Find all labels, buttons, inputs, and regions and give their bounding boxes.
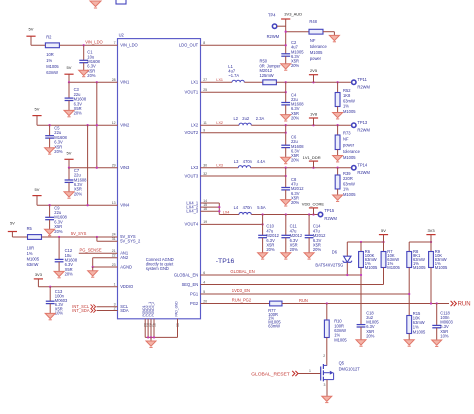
ground C2 gnd — [281, 56, 291, 70]
wire VOUT2 pin — [201, 132, 286, 134]
svg-text:10R: 10R — [46, 52, 54, 57]
svg-text:6: 6 — [203, 271, 205, 275]
wire C10 stub — [262, 215, 264, 236]
junction pgnd1 — [147, 336, 149, 338]
ground PGND gnd — [146, 337, 156, 347]
C2 labels — [291, 40, 304, 68]
svg-text:25: 25 — [203, 88, 207, 92]
svg-text:2: 2 — [323, 354, 325, 358]
junction 1V1/R39 — [336, 167, 338, 169]
capacitor C2 — [281, 54, 290, 56]
svg-text:3V3: 3V3 — [427, 228, 435, 233]
junction core/C14 — [308, 213, 310, 215]
svg-text:M1005: M1005 — [387, 265, 400, 270]
net label VDD_CORE — [302, 202, 325, 207]
resistor R39 — [335, 175, 340, 189]
testpoint TP14 — [352, 166, 356, 170]
svg-text:1%: 1% — [343, 187, 349, 192]
svg-text:VOUT1: VOUT1 — [185, 90, 199, 95]
resistor R52 — [335, 93, 340, 107]
svg-text:20%: 20% — [366, 333, 375, 338]
C8 labels — [291, 177, 304, 205]
wire R48 right — [323, 31, 334, 33]
svg-text:M1005: M1005 — [343, 192, 356, 197]
resistor R8 — [407, 252, 412, 268]
junction 3V3 tee — [430, 241, 432, 243]
wire C118 stub — [436, 304, 438, 326]
svg-text:9: 9 — [203, 129, 205, 133]
net label Q5 pin1 — [309, 369, 311, 373]
wire C14 stub — [308, 215, 310, 236]
svg-text:20%: 20% — [65, 272, 74, 277]
svg-text:28: 28 — [112, 78, 116, 82]
wire 5V rail horiz — [347, 241, 383, 243]
C14 labels — [313, 224, 326, 253]
capacitor C118 — [432, 325, 441, 327]
junction VIN4/C9 — [48, 204, 50, 206]
wire L3 to rail — [251, 167, 351, 169]
wire Q5 source — [326, 380, 328, 397]
testpoint TP4 — [272, 24, 276, 28]
svg-text:INT_SDA: INT_SDA — [72, 308, 90, 313]
svg-text:R5: R5 — [27, 226, 33, 231]
ground R52 gnd — [333, 107, 343, 119]
svg-text:M1005: M1005 — [413, 265, 426, 270]
testpoint TP13 — [352, 123, 356, 127]
svg-text:1%: 1% — [46, 58, 52, 63]
svg-text:LX3: LX3 — [216, 163, 223, 167]
power 5V (VIN1) — [64, 65, 73, 74]
svg-text:U2: U2 — [119, 33, 125, 38]
wire LX4 to L4 — [219, 214, 239, 216]
net label TP16 note — [216, 258, 235, 265]
svg-text:30: 30 — [203, 164, 207, 168]
inductor L4 — [239, 212, 251, 214]
wire 5V to VIN1 row — [68, 74, 70, 82]
C10 labels — [266, 224, 279, 253]
wire PGND gather — [145, 336, 177, 338]
junction VIN_LDO/C1 — [83, 44, 85, 46]
R15 labels — [413, 311, 426, 334]
junction core/bar — [312, 213, 314, 215]
resistor R10 — [324, 320, 329, 338]
junction R10/RUN — [326, 302, 328, 304]
svg-text:LX3: LX3 — [191, 165, 199, 170]
junction LX4 join1 — [218, 206, 220, 208]
C13 labels — [55, 289, 68, 316]
IC U2 PMIC — [118, 33, 201, 319]
power 5V (pullups) — [379, 228, 388, 234]
wire R10 top stub — [326, 304, 328, 321]
net label VIN_LDO — [85, 39, 103, 44]
wire 2V5 bar stem — [313, 75, 315, 83]
wire L2 to rail — [251, 124, 351, 126]
wire R9 top stub — [430, 242, 432, 252]
ground R73 gnd — [333, 150, 343, 162]
svg-text:R2: R2 — [46, 35, 52, 40]
wire 5V to VIN3 row — [68, 159, 70, 167]
wire PG1 row — [201, 293, 410, 295]
wire R8 top stub — [408, 242, 410, 252]
svg-text:VOUT3: VOUT3 — [185, 173, 199, 178]
svg-text:20%: 20% — [74, 191, 83, 196]
junction 1V8/C6 — [285, 124, 287, 126]
wire R39 top stub — [337, 168, 339, 175]
junction 2V5/bar — [312, 81, 314, 83]
capacitor C6 — [281, 145, 290, 147]
svg-text:M1005: M1005 — [46, 64, 59, 69]
wire R9 bottom — [430, 268, 432, 304]
wire 5V to VIN2 row — [36, 116, 38, 126]
wire C12 stub — [58, 237, 60, 259]
svg-text:470n: 470n — [243, 205, 253, 210]
svg-text:power: power — [310, 56, 322, 61]
svg-text:VIN1: VIN1 — [120, 80, 130, 85]
svg-text:L2: L2 — [234, 116, 239, 121]
svg-text:~1.7A: ~1.7A — [228, 73, 239, 78]
svg-text:20%: 20% — [291, 200, 300, 205]
resistor R5 — [28, 235, 42, 240]
ground Q5 gnd — [322, 396, 332, 402]
junction C118/RUN — [436, 302, 438, 304]
power 5V (VIN4) — [32, 187, 41, 196]
wire TP4 to net — [277, 25, 286, 27]
junction 2V5/C4 — [285, 81, 287, 83]
power 2V5 — [309, 68, 318, 75]
svg-text:NF: NF — [310, 38, 316, 43]
junction VIN1/chain — [96, 81, 98, 83]
svg-text:R2WM: R2WM — [357, 128, 370, 133]
testpoint TP11 — [352, 80, 356, 84]
power 5V (VIN2) — [32, 106, 41, 115]
U2 bottom pin names PGND PAD_GND — [142, 301, 178, 317]
svg-text:GLOBAL_EN: GLOBAL_EN — [174, 272, 198, 277]
inductor L3 — [238, 166, 250, 168]
capacitor C9 — [45, 217, 54, 219]
svg-text:20%: 20% — [291, 158, 300, 163]
resistor R73 — [335, 135, 340, 150]
svg-text:R2WM: R2WM — [267, 34, 280, 39]
svg-text:2u2: 2u2 — [242, 116, 250, 121]
net label Q5 pin3 — [324, 383, 326, 387]
port chevron RUN port — [451, 301, 457, 306]
svg-text:PG2: PG2 — [190, 301, 199, 306]
wire VIN1-VIN3 chain — [96, 82, 98, 167]
wire C13 stub — [49, 287, 51, 301]
ground C12 gnd — [54, 262, 64, 278]
wire VIN_LDO row — [31, 44, 118, 46]
svg-text:BAT54XV2T5G: BAT54XV2T5G — [315, 262, 343, 267]
TP13 labels — [357, 120, 370, 132]
svg-text:M1005: M1005 — [365, 265, 378, 270]
ground C6 gnd — [281, 148, 291, 164]
svg-text:1V1_DDR: 1V1_DDR — [303, 155, 321, 160]
svg-text:VDDIO: VDDIO — [120, 284, 133, 289]
wire C5 stub — [49, 125, 51, 136]
junction R6/GLOBAL_EN — [360, 274, 362, 276]
svg-text:LX1: LX1 — [216, 78, 223, 82]
net label INT_SCL — [72, 304, 90, 309]
junction pgnd3 — [153, 336, 155, 338]
wire VIN2-VIN4 chain — [87, 125, 89, 205]
svg-text:5V: 5V — [10, 220, 15, 225]
svg-text:19: 19 — [203, 220, 207, 224]
wire L4 to rail — [251, 214, 318, 216]
R8 labels — [413, 249, 426, 270]
wire 5V_SYS_2 drop — [96, 237, 98, 241]
svg-text:LX2: LX2 — [191, 123, 199, 128]
svg-text:PG1: PG1 — [190, 291, 199, 296]
port chevron INT_SDA — [91, 308, 96, 312]
net label GLOBAL_EN — [230, 269, 254, 274]
svg-text:2.3A: 2.3A — [256, 116, 265, 121]
svg-text:TP11: TP11 — [357, 77, 367, 82]
testpoint TP15 — [318, 212, 322, 216]
junction R8/PG1 — [408, 293, 410, 295]
wire LX2 pin — [201, 124, 240, 126]
junction pgnd2 — [150, 336, 152, 338]
wire LX4 pin stubs — [201, 203, 220, 215]
ground C3 gnd — [64, 101, 74, 117]
R77 labels — [268, 308, 281, 329]
wire 5V stem — [383, 235, 385, 242]
junction 1V1/bar — [312, 167, 314, 169]
junction VIN2/chain — [96, 124, 98, 126]
svg-text:1V8: 1V8 — [310, 112, 318, 117]
svg-text:7: 7 — [114, 41, 116, 45]
wire SDA — [97, 310, 118, 312]
svg-text:M1005: M1005 — [343, 155, 356, 160]
svg-text:11: 11 — [203, 121, 207, 125]
capacitor C3 — [65, 98, 74, 100]
resistor R50 — [263, 80, 277, 85]
svg-text:20%: 20% — [291, 63, 300, 68]
svg-text:L4: L4 — [234, 205, 239, 210]
inductor L1 — [232, 80, 244, 82]
net label 1V1_DDR — [303, 155, 321, 160]
svg-text:5V_SYS_2: 5V_SYS_2 — [120, 239, 141, 244]
wire 3V3 rail horiz — [409, 241, 431, 243]
svg-text:20%: 20% — [290, 247, 299, 252]
resistor R2 — [45, 43, 59, 48]
resistor R9 — [429, 252, 434, 268]
svg-text:21: 21 — [112, 249, 116, 253]
svg-text:1VD3_EN: 1VD3_EN — [232, 288, 250, 293]
junction R48 tap — [285, 31, 287, 33]
svg-text:63mW: 63mW — [27, 262, 39, 267]
R10 labels — [334, 319, 347, 343]
svg-text:VOUT2: VOUT2 — [185, 130, 199, 135]
wire 5V to VIN4 row — [36, 196, 38, 206]
svg-text:12: 12 — [112, 121, 116, 125]
ground R48 gnd — [329, 32, 339, 42]
svg-text:R48: R48 — [309, 19, 317, 24]
capacitor C1 — [79, 60, 88, 62]
junction AN2/AGND — [92, 266, 94, 268]
svg-text:R73: R73 — [343, 131, 351, 136]
svg-text:63mW: 63mW — [343, 98, 355, 103]
net label INT_SDA — [72, 308, 90, 313]
TP4 labels — [267, 13, 280, 39]
svg-text:LX4: LX4 — [223, 211, 230, 215]
junction 5V_SYS split — [96, 236, 98, 238]
svg-text:AGND: AGND — [120, 264, 132, 269]
wire 3V3 stem — [430, 235, 432, 242]
svg-text:R2WM: R2WM — [324, 216, 337, 221]
junction VIN3/chain — [96, 167, 98, 169]
U2 bottom pin numbers — [144, 323, 180, 327]
capacitor C8 — [281, 188, 290, 190]
ground C13 gnd — [45, 304, 55, 320]
ground C9 gnd — [45, 220, 55, 236]
junction 2V5/R52 — [336, 81, 338, 83]
L2 labels — [234, 116, 265, 121]
svg-text:220R: 220R — [343, 176, 353, 181]
R5 labels — [27, 226, 40, 267]
resistor R48 — [309, 29, 323, 34]
svg-text:22: 22 — [112, 254, 116, 258]
svg-text:24: 24 — [112, 232, 116, 236]
ground C18 gnd — [356, 327, 366, 346]
R50 labels — [260, 58, 282, 78]
capacitor C5 — [45, 136, 54, 138]
svg-text:10R: 10R — [27, 246, 35, 251]
svg-text:GLOBAL_EN: GLOBAL_EN — [230, 269, 254, 274]
R6 labels — [365, 249, 378, 270]
U2 note text — [146, 257, 174, 271]
C11 labels — [290, 224, 303, 253]
net label GLOBAL_RESET — [251, 371, 290, 377]
net label LX1 — [216, 78, 223, 82]
svg-text:63mW: 63mW — [46, 70, 58, 75]
power 3V3 (pullups) — [426, 228, 435, 234]
resistor R15 — [407, 316, 412, 334]
svg-text:LX2: LX2 — [216, 121, 223, 125]
ground AGND gnd — [88, 267, 98, 277]
svg-text:R39: R39 — [343, 171, 351, 176]
svg-text:R2WM: R2WM — [357, 170, 370, 175]
svg-text:LDO_OUT: LDO_OUT — [179, 43, 199, 48]
wire VIN2 row — [37, 124, 118, 126]
wire GLOBAL_EN row — [201, 274, 362, 276]
svg-text:1: 1 — [309, 369, 311, 373]
C5 labels — [54, 126, 67, 155]
svg-text:20%: 20% — [54, 149, 63, 154]
svg-text:10%: 10% — [440, 333, 449, 338]
diode D6 BAT54XV2T5G — [343, 242, 352, 275]
R39 labels — [343, 171, 356, 197]
svg-text:5V: 5V — [35, 106, 40, 111]
power VDD_CORE bar — [309, 207, 318, 209]
svg-text:1%: 1% — [343, 104, 349, 109]
junction VIN2/chain2 — [86, 124, 88, 126]
wire L1 to R50 — [244, 81, 262, 83]
wire 5V to R5 — [11, 232, 13, 238]
net label RUN port — [458, 302, 471, 308]
transistor Q5 DMG1012T — [321, 364, 334, 381]
svg-text:27: 27 — [203, 78, 207, 82]
svg-text:LX4_3: LX4_3 — [186, 209, 199, 214]
svg-text:RUN: RUN — [299, 298, 308, 303]
wire R50 to rail — [276, 81, 351, 83]
capacitor C4 — [281, 103, 290, 105]
junction VOUT4 tap — [261, 223, 263, 225]
svg-text:VIN2: VIN2 — [120, 123, 130, 128]
power 1V8 — [309, 112, 318, 119]
wire C1 stub — [83, 45, 85, 60]
wire AGND row — [93, 266, 118, 268]
ground C118 gnd — [432, 328, 442, 347]
svg-text:13: 13 — [112, 201, 116, 205]
svg-text:GLOBAL_RESET: GLOBAL_RESET — [251, 371, 290, 377]
junction VIN3/C7 — [68, 167, 70, 169]
svg-text:RUN: RUN — [458, 302, 471, 308]
L1 labels — [228, 64, 239, 78]
R52 labels — [343, 88, 356, 114]
junction R9/RUN — [430, 302, 432, 304]
R73 labels — [343, 131, 361, 160]
D6 labels — [315, 250, 343, 268]
wire R52 top stub — [337, 82, 339, 92]
wire R5 left — [12, 236, 27, 238]
L3 labels — [234, 159, 266, 164]
C7 labels — [74, 168, 87, 197]
svg-text:8: 8 — [203, 41, 205, 45]
wire PG2 row — [201, 303, 270, 305]
svg-text:AN2: AN2 — [120, 255, 129, 260]
ground C14 gnd — [304, 238, 314, 259]
svg-text:-TP16: -TP16 — [216, 258, 235, 265]
wire C8 stub — [285, 168, 287, 188]
ground C1 gnd — [79, 63, 89, 77]
svg-text:M1005: M1005 — [334, 337, 347, 342]
svg-text:NF: NF — [343, 137, 349, 142]
net label RUN — [299, 298, 308, 303]
Q5 labels — [339, 361, 361, 372]
svg-text:power: power — [343, 143, 355, 148]
junction LX4 join2 — [218, 210, 220, 212]
ground C4 gnd — [281, 105, 291, 121]
wire PG_SENSE to AN1 — [79, 252, 118, 254]
ground C11 gnd — [281, 238, 291, 259]
wire R6 top stub — [360, 242, 362, 252]
power 5V (VIN_LDO) — [26, 27, 35, 37]
net label 1VD3_EN — [232, 288, 250, 293]
svg-text:M1005: M1005 — [343, 109, 356, 114]
wire C3 stub — [68, 82, 70, 98]
power 5V (SYS) — [8, 220, 17, 231]
wire C6 stub — [285, 125, 287, 145]
capacitor C11 — [281, 235, 290, 237]
svg-text:23: 23 — [112, 263, 116, 267]
power 1V1_DDR bar — [309, 160, 318, 162]
wire VOUT3 pin — [201, 175, 286, 177]
svg-text:5V: 5V — [35, 187, 40, 192]
R9 labels — [435, 249, 448, 270]
U2 right pin numbers — [203, 41, 207, 303]
wire R6 bottom to C18 — [360, 268, 362, 325]
junction VIN2/C5 — [48, 124, 50, 126]
svg-text:1K8: 1K8 — [343, 93, 351, 98]
junction VOUT3 tap — [285, 175, 287, 177]
svg-text:20%: 20% — [87, 73, 96, 78]
wire VIN3 row — [69, 167, 118, 169]
partial connector box top edge — [116, 0, 126, 4]
svg-text:PAD_GND: PAD_GND — [175, 301, 179, 317]
svg-text:DMG1012T: DMG1012T — [339, 367, 361, 372]
power 5V (VIN3) — [64, 151, 73, 160]
wire 1V1 bar stem — [313, 161, 315, 168]
